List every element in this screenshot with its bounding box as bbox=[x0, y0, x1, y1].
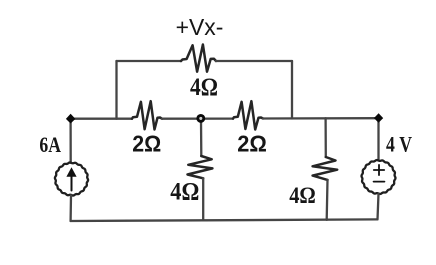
svg-text:2Ω: 2Ω bbox=[132, 130, 161, 156]
resistor R5 4ohm (right vertical) bbox=[313, 157, 338, 180]
wire: top branch left vertical bbox=[115, 61, 117, 119]
wire: middle horizontal centre segment (R1 to R2) bbox=[162, 117, 233, 119]
node A junction dot (left) bbox=[66, 114, 76, 124]
svg-text:4 V: 4 V bbox=[386, 131, 412, 156]
wire: top branch left horizontal bbox=[117, 60, 182, 62]
wire: right 4ohm branch lower vertical bbox=[326, 180, 329, 220]
current source I1 6A (circle) bbox=[55, 162, 88, 195]
resistor R1 2ohm (left, on middle wire) bbox=[132, 101, 162, 129]
wire: right 4ohm branch upper vertical bbox=[324, 118, 326, 157]
wire: top branch right horizontal bbox=[216, 60, 292, 62]
svg-text:6A: 6A bbox=[39, 132, 61, 157]
wire: top branch right vertical bbox=[291, 61, 293, 119]
resistor R4 4ohm (middle vertical) bbox=[188, 156, 213, 178]
wire: bottom horizontal bbox=[71, 219, 378, 221]
wire: right branch lower vertical (voltage source to bottom wire) bbox=[378, 194, 379, 220]
voltage source plus sign bbox=[374, 165, 384, 175]
resistor R2 2ohm (right, on middle wire) bbox=[233, 101, 263, 129]
current source arrow bbox=[71, 172, 73, 191]
wire: right branch upper vertical (node C to voltage source) bbox=[377, 118, 379, 160]
wire: left branch lower vertical (current source to bottom wire) bbox=[69, 195, 72, 221]
svg-text:4Ω: 4Ω bbox=[170, 178, 199, 205]
wire: middle horizontal left segment (node A to R-2ohm-left) bbox=[71, 118, 133, 120]
wire: middle branch lower vertical (R4 to bottom wire) bbox=[202, 178, 204, 220]
wire: middle branch upper vertical (node B to R4) bbox=[200, 119, 203, 156]
wire: middle horizontal right segment (R2 to node C) bbox=[263, 117, 379, 120]
voltage source V1 4V (circle) bbox=[362, 160, 396, 194]
svg-text:+Vx-: +Vx- bbox=[176, 14, 224, 40]
svg-text:4Ω: 4Ω bbox=[289, 183, 316, 208]
voltage source minus sign bbox=[374, 181, 385, 183]
node C junction dot (right) bbox=[374, 113, 383, 122]
svg-text:4Ω: 4Ω bbox=[190, 74, 218, 101]
wire: left branch upper vertical (node A to current source) bbox=[69, 119, 71, 163]
svg-text:2Ω: 2Ω bbox=[237, 130, 267, 156]
resistor R3 4ohm (top branch, Vx) bbox=[181, 45, 216, 72]
node B junction ring (middle) bbox=[198, 115, 204, 121]
